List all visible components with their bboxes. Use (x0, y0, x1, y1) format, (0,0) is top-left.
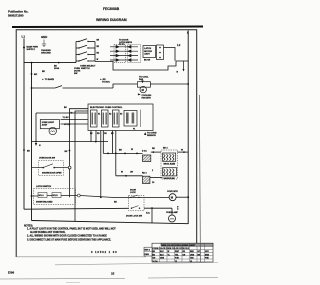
terminal strip box (157, 45, 164, 60)
svg-text:L1: L1 (22, 35, 26, 39)
svg-text:W: W (71, 113, 73, 115)
electronic oven control EOC block (88, 104, 153, 131)
svg-text:MOTOR: MOTOR (144, 51, 152, 53)
svg-text:14 GA: 14 GA (153, 260, 159, 263)
svg-text:K3: K3 (120, 114, 122, 116)
door switch plug circle (68, 166, 71, 169)
svg-text:WIRING DIAGRAM: WIRING DIAGRAM (96, 18, 127, 22)
arrow label right (100, 78, 110, 84)
svg-text:W: W (121, 172, 123, 174)
wire bus upper y209 (24, 207, 129, 210)
wire row y153 (103, 153, 142, 155)
wire gauge labels left (152, 170, 155, 184)
svg-text:BAKE ELEM: BAKE ELEM (164, 177, 176, 180)
svg-text:DOOR LOCK SW: DOOR LOCK SW (126, 216, 142, 218)
EOC relay K2 (102, 110, 109, 127)
svg-text:SOL B: SOL B (53, 195, 59, 197)
footer rule faint (55, 263, 218, 265)
svg-text:1. A PILOT LIGHT IS IN THE CON: 1. A PILOT LIGHT IS IN THE CONTROL PANEL… (27, 227, 116, 230)
svg-text:2. ALL WIRING SHOWN WITH DOOR: 2. ALL WIRING SHOWN WITH DOOR CLOSED CON… (27, 235, 107, 238)
wire element2 to enclosure (150, 177, 163, 179)
wire door switch to latch box (69, 169, 71, 197)
wire element1 to relay box (151, 148, 188, 154)
svg-text:3 16502 1 33: 3 16502 1 33 (91, 250, 118, 254)
latch plug circle (77, 194, 80, 197)
bake coil element (163, 168, 177, 180)
svg-text:N.O.: N.O. (146, 213, 151, 215)
junction light circuit tap (31, 87, 33, 89)
svg-text:W: W (168, 251, 170, 253)
EOC divider line (139, 110, 141, 127)
wire long horizontal y141 (32, 141, 109, 147)
footer bottom rule (0, 278, 218, 280)
svg-text:ORN: ORN (190, 254, 195, 256)
svg-text:E/96: E/96 (8, 271, 15, 275)
row4 (76, 60, 79, 62)
ground text (41, 49, 51, 55)
door lock bottom label (126, 213, 151, 218)
svg-text:5995271590: 5995271590 (8, 14, 24, 18)
row2 (76, 47, 79, 49)
svg-text:M: M (142, 88, 144, 92)
svg-text:SOL A: SOL A (39, 194, 45, 197)
oven light assembly box (40, 120, 59, 129)
arrow label to bake (42, 71, 55, 81)
ground symbol (42, 40, 46, 47)
door lock switch labels (130, 190, 137, 195)
svg-text:FEC30S8B: FEC30S8B (103, 7, 120, 11)
cooling fan label (139, 77, 149, 84)
EOC pin labels (90, 114, 135, 136)
heavy top rule (12, 26, 203, 29)
svg-text:SW: SW (74, 73, 77, 75)
selector switch terminals (78, 41, 88, 62)
svg-text:GRN: GRN (160, 258, 165, 260)
row1 (76, 41, 79, 43)
wire EOC drop c (102, 131, 104, 154)
svg-text:K2: K2 (109, 114, 111, 116)
svg-text:GROUND: GROUND (41, 53, 51, 55)
junction on L1 (23, 46, 38, 52)
bus label (54, 65, 60, 70)
junction dot on rail2 (31, 73, 38, 76)
lock motor box (143, 46, 156, 62)
lamp feed drop (171, 208, 173, 215)
oven selector switch S1 bank (76, 39, 95, 63)
wire L2 vertical rail (187, 31, 189, 225)
tick label BK (114, 202, 117, 204)
wire color code table (144, 243, 213, 263)
svg-text:10: 10 (190, 261, 192, 263)
svg-text:WIRE COLOR CODE LEGEND CHART: WIRE COLOR CODE LEGEND CHART (162, 244, 197, 247)
wire EOC drop b2 (71, 111, 89, 221)
wires light box to EOC (61, 120, 89, 125)
wire branch door lock to bus (151, 207, 153, 223)
EOC relay K1 (91, 110, 98, 127)
oven lamp (169, 215, 176, 222)
svg-text:LATCH SWITCH: LATCH SWITCH (36, 185, 52, 188)
svg-text:BK: BK (42, 71, 46, 73)
wire EOC side tap a (64, 107, 88, 166)
svg-text:P1: P1 (133, 129, 135, 131)
publication number text (8, 10, 29, 18)
wire connector to L2 (164, 48, 176, 61)
cooling fan motor circle (140, 86, 146, 92)
svg-text:W: W (131, 149, 133, 151)
connector P1 left housing (114, 45, 126, 63)
svg-text:SWITCH: SWITCH (81, 68, 90, 70)
svg-text:► RD: ► RD (100, 78, 106, 81)
plug arrow near L2 (177, 61, 185, 74)
EOC relay K3 (113, 110, 120, 127)
svg-text:W: W (97, 59, 99, 61)
svg-text:TO EOC: TO EOC (102, 82, 110, 84)
svg-text:L2: L2 (177, 43, 181, 47)
svg-text:CONV MTR: CONV MTR (167, 191, 178, 193)
svg-text:FAN MTR: FAN MTR (142, 97, 152, 100)
svg-text:BK OR: BK OR (144, 60, 151, 62)
row3 (76, 54, 79, 56)
svg-text:BROIL ELEM: BROIL ELEM (164, 164, 176, 166)
wire L1 top bus y63 (24, 62, 76, 64)
svg-text:ELECTRONIC OVEN CONTROL: ELECTRONIC OVEN CONTROL (90, 107, 123, 109)
page fold line right (199, 95, 200, 262)
wire EOC drop d (112, 131, 114, 154)
svg-text:GND: GND (41, 35, 47, 39)
wire lamp circuit tap (31, 62, 33, 221)
svg-text:► TO BAKE: ► TO BAKE (42, 78, 55, 81)
wire EOC drop b (95, 131, 97, 142)
oven sensor arrow label (144, 132, 157, 137)
wire motor to L2 (176, 196, 189, 198)
connector P1 right housing (128, 45, 141, 63)
svg-text:ASSY: ASSY (42, 124, 48, 127)
svg-text:DWG: DWG (145, 254, 150, 256)
lamp ground arrow (177, 206, 179, 209)
svg-text:SUPPLY: SUPPLY (27, 49, 36, 51)
cooling fan lower label (138, 94, 152, 100)
svg-text:12: 12 (175, 261, 177, 263)
door lock dashed box (129, 195, 144, 211)
diagram frame border (16, 30, 197, 257)
svg-text:BK: BK (34, 74, 38, 76)
svg-text:15: 15 (111, 272, 115, 276)
svg-text:ASSY: ASSY (144, 53, 150, 56)
door switch labels (74, 68, 81, 75)
wire into oven light box (35, 113, 37, 142)
svg-text:YL BU: YL BU (63, 117, 70, 119)
wire labels right of light box (63, 117, 71, 126)
svg-text:LATCH: LATCH (144, 47, 151, 50)
svg-text:3. DISCONNECT LINE AT MAIN FUS: 3. DISCONNECT LINE AT MAIN FUSE BEFORE S… (27, 238, 111, 241)
convection motor (169, 194, 176, 201)
junction on bus (58, 62, 60, 64)
svg-text:2 GA: 2 GA (142, 150, 147, 153)
wire EOC drop b3 (90, 131, 92, 142)
oven door switch dashed box (32, 158, 69, 176)
wire lower door lock to lamp (144, 207, 172, 209)
wire row y153 labels (119, 149, 147, 153)
lower dashed box latch switch (34, 185, 78, 205)
wire to EOC top row (36, 112, 88, 114)
svg-text:REV A: REV A (145, 248, 151, 251)
wire EOC drop long (100, 131, 102, 199)
wire L1 vertical rail (23, 39, 25, 210)
footer tick marks (66, 282, 80, 284)
wire rail to latch box (31, 195, 38, 197)
EOC connector block (124, 111, 137, 127)
svg-text:GLOW DURING ANY FUNCTION.: GLOW DURING ANY FUNCTION. (30, 231, 66, 234)
svg-text:K1: K1 (98, 114, 100, 116)
dual element dashed enclosure (161, 150, 178, 179)
svg-text:OVEN DOOR SW: OVEN DOOR SW (39, 158, 55, 160)
bake element hatched (143, 176, 150, 183)
latch connector label (119, 40, 133, 46)
svg-text:NOTES:: NOTES: (24, 224, 33, 227)
wire drop to second row (115, 131, 117, 176)
cooling fan motor housing (137, 82, 150, 88)
wire bus lower neutral return (32, 221, 189, 224)
selector switch label (80, 66, 96, 71)
wire fan to L2 (150, 83, 189, 85)
wire row y176 (116, 172, 148, 177)
broil element hatched (143, 155, 151, 162)
wire from selector to L2 (95, 61, 188, 70)
wire latch to door lock (80, 196, 112, 198)
wire upper through door lock (112, 196, 169, 198)
selector row labels (97, 40, 100, 62)
svg-text:BRN: BRN (205, 254, 210, 256)
junction on L1 rail (23, 149, 30, 152)
svg-text:W: W (181, 150, 183, 152)
svg-text:10GA: 10GA (54, 67, 60, 70)
oven light lamp circle (49, 127, 56, 134)
svg-text:LOCK: LOCK (130, 192, 136, 194)
table left annex (144, 247, 152, 256)
svg-text:SENSOR: SENSOR (147, 135, 156, 137)
svg-text:SHOWN UNLOCKED: SHOWN UNLOCKED (36, 202, 53, 204)
connector pin pairs (110, 46, 138, 62)
broil coil element (163, 153, 176, 166)
svg-text:SHOWN DOOR OPEN: SHOWN DOOR OPEN (42, 173, 62, 175)
wire mid horizontal with switch (32, 84, 138, 88)
